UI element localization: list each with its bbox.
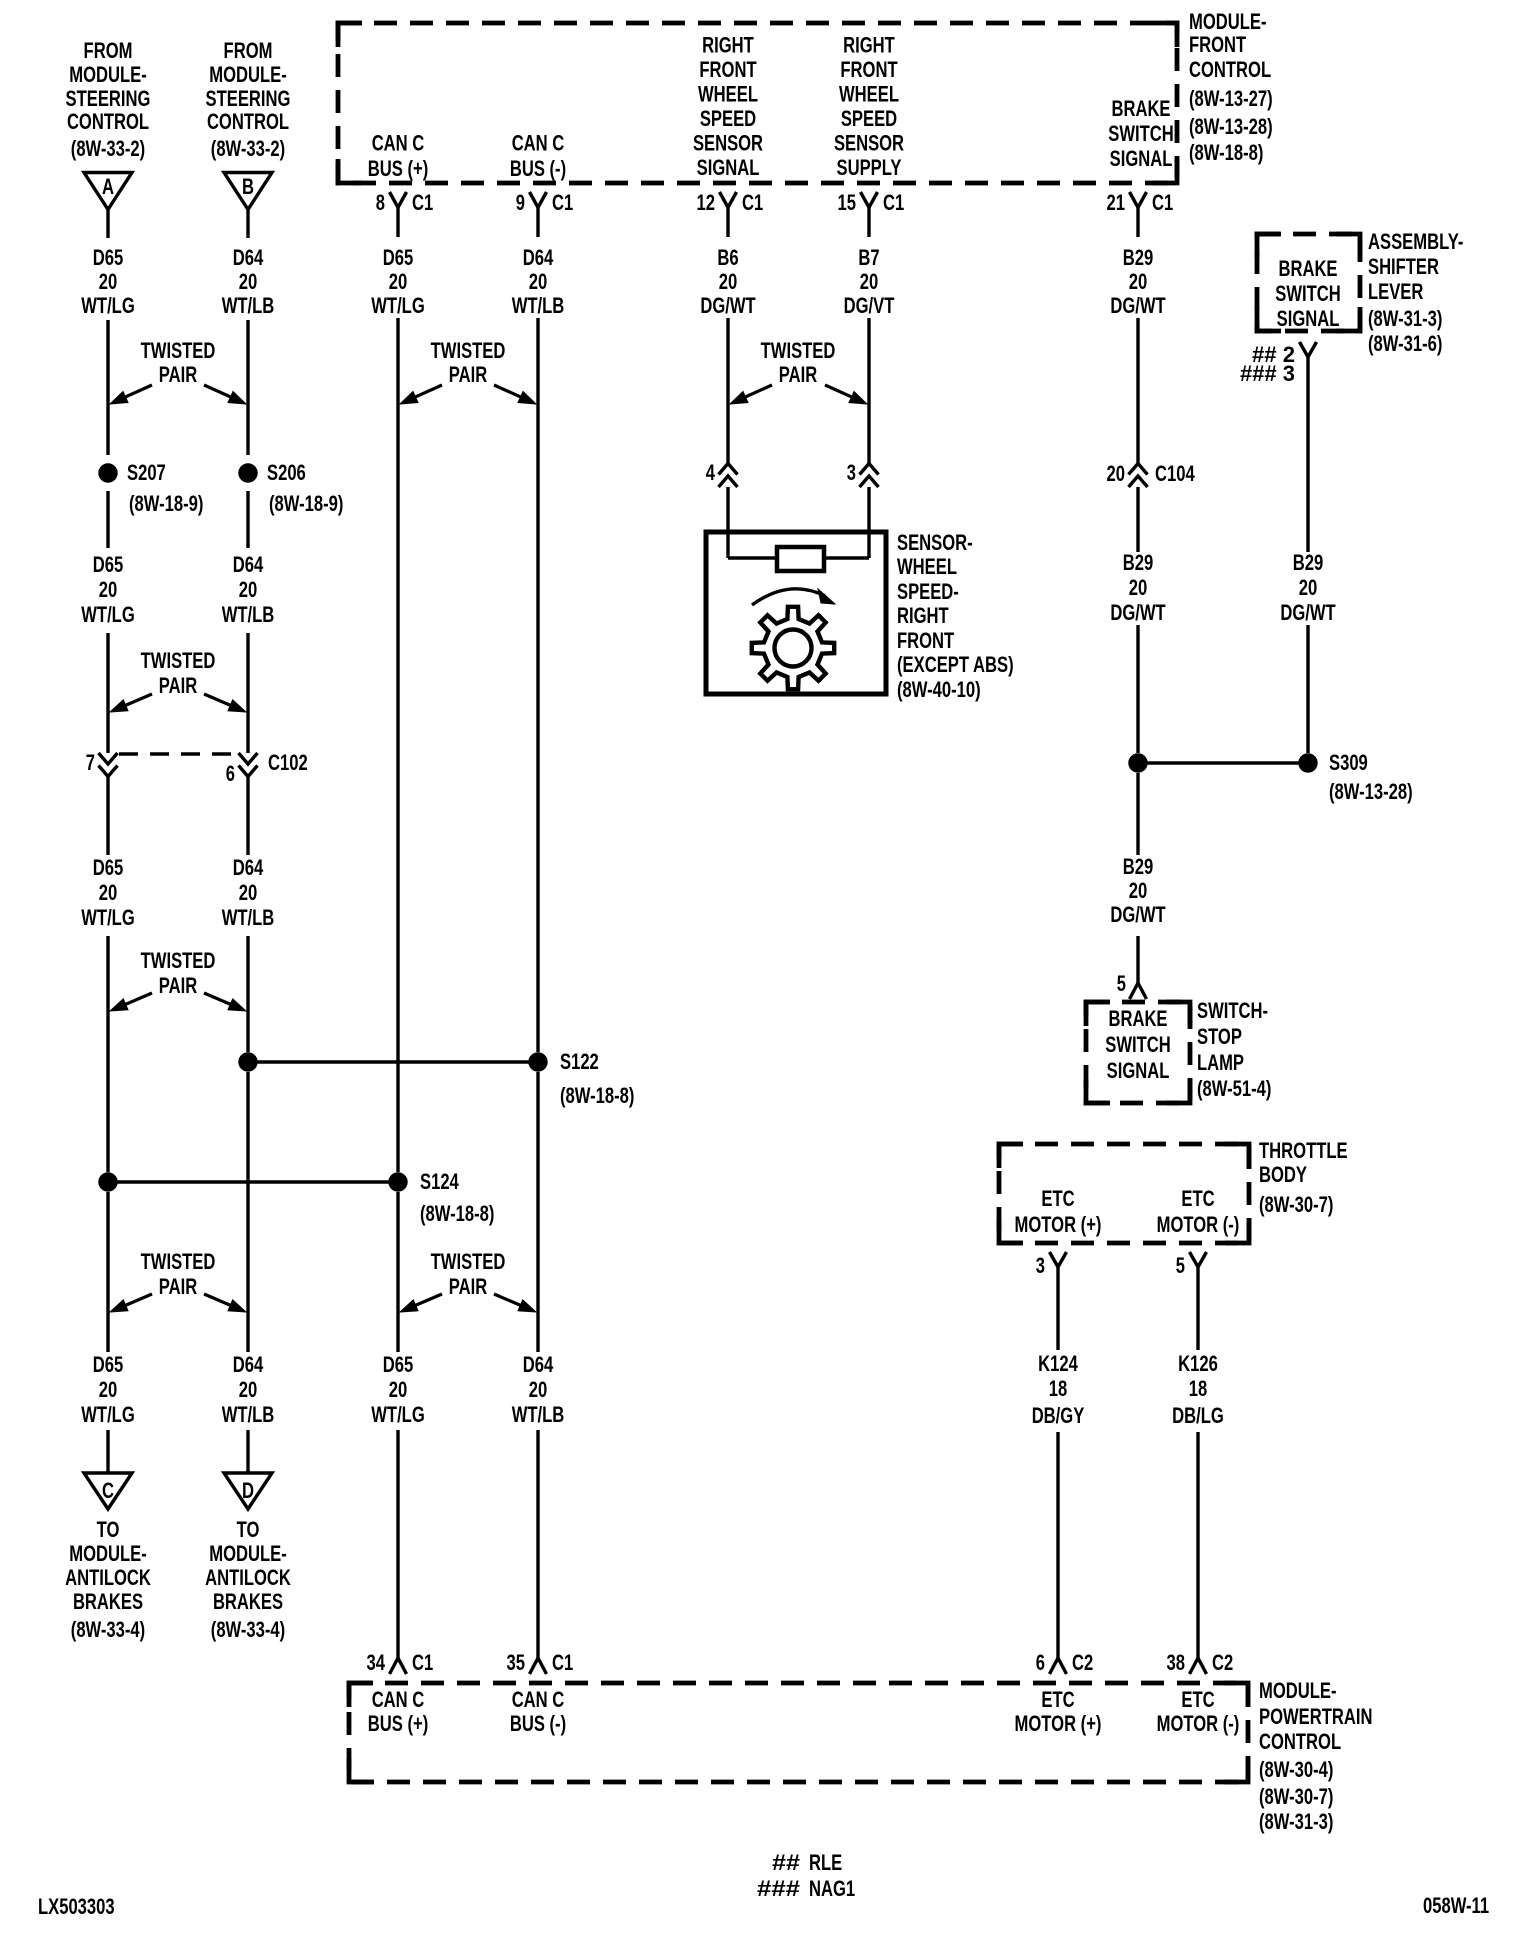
svg-text:18: 18 (1189, 1376, 1208, 1401)
svg-text:WT/LB: WT/LB (222, 905, 275, 930)
label ETC MOTOR (+) in PCM (1015, 1687, 1102, 1736)
svg-text:D65: D65 (93, 1352, 124, 1377)
svg-text:15: 15 (838, 190, 857, 215)
svg-text:ANTILOCK: ANTILOCK (65, 1565, 151, 1590)
svg-text:LAMP: LAMP (1197, 1050, 1244, 1075)
svg-text:D65: D65 (383, 245, 414, 270)
wire D64 col2 seg4 (246, 633, 249, 753)
svg-text:DG/WT: DG/WT (700, 293, 756, 318)
wire D65 col1 seg3 (106, 491, 109, 548)
rotation arc arrow (752, 589, 835, 605)
label TO MODULE-ANTILOCK BRAKES (right) (205, 1517, 291, 1642)
svg-text:CONTROL: CONTROL (1259, 1729, 1341, 1754)
label TWISTED PAIR with arrows (top, between 728 and 869) (730, 338, 867, 404)
svg-text:20: 20 (529, 1377, 548, 1402)
label ETC MOTOR (-) in PCM (1157, 1687, 1240, 1736)
svg-text:S207: S207 (127, 460, 166, 485)
tone wheel gear icon (752, 607, 834, 689)
svg-text:WT/LG: WT/LG (81, 293, 135, 318)
svg-text:MODULE-: MODULE- (1259, 1678, 1337, 1703)
wire B29 col7 seg4 (1136, 773, 1139, 855)
svg-text:CAN C: CAN C (512, 1687, 565, 1712)
svg-text:MOTOR (-): MOTOR (-) (1157, 1212, 1240, 1237)
svg-text:D65: D65 (93, 245, 124, 270)
svg-text:B7: B7 (858, 245, 879, 270)
label THROTTLE BODY refs (1259, 1138, 1348, 1217)
label TO MODULE-ANTILOCK BRAKES (left) (65, 1517, 151, 1642)
svg-text:CAN C: CAN C (372, 1687, 425, 1712)
svg-text:RIGHT: RIGHT (843, 33, 895, 58)
svg-text:5: 5 (1117, 971, 1126, 996)
svg-text:MODULE-: MODULE- (1189, 9, 1267, 34)
svg-text:C1: C1 (742, 190, 763, 215)
svg-text:WT/LG: WT/LG (81, 602, 135, 627)
wire B29 col8 seg1 (1306, 357, 1309, 552)
svg-text:DB/GY: DB/GY (1032, 1403, 1085, 1428)
wire label D64 20 WT/LB (row D) (222, 1352, 275, 1427)
svg-text:SPEED: SPEED (700, 106, 756, 131)
svg-text:SENSOR: SENSOR (693, 131, 763, 156)
svg-text:PAIR: PAIR (159, 973, 197, 998)
wire label D65 20 WT/LG (row B) (81, 552, 135, 627)
svg-text:(8W-40-10): (8W-40-10) (897, 677, 981, 702)
svg-text:B29: B29 (1123, 245, 1154, 270)
svg-text:POWERTRAIN: POWERTRAIN (1259, 1704, 1373, 1729)
wire D65 col1 seg4 (106, 633, 109, 753)
svg-text:8: 8 (376, 190, 385, 215)
wire B29 col7 seg3 (1136, 625, 1139, 753)
module box MODULE-POWERTRAIN CONTROL (349, 1683, 1248, 1782)
label TWISTED PAIR with arrows (bottom, between 108 and 248) (110, 1249, 246, 1312)
svg-text:SIGNAL: SIGNAL (1110, 146, 1173, 171)
svg-text:D65: D65 (383, 1352, 414, 1377)
svg-text:WHEEL: WHEEL (698, 82, 758, 107)
label FROM MODULE-STEERING CONTROL (left A) (66, 38, 151, 161)
connector triangle A (84, 173, 132, 210)
svg-text:SENSOR: SENSOR (834, 131, 904, 156)
legend ## RLE (772, 1850, 842, 1875)
pin 8 C1 on FCM (376, 190, 433, 237)
label BRAKE SWITCH SIGNAL in FCM (1108, 96, 1174, 171)
svg-text:C1: C1 (412, 1650, 433, 1675)
svg-text:(8W-51-4): (8W-51-4) (1197, 1076, 1271, 1101)
svg-text:C2: C2 (1212, 1650, 1233, 1675)
svg-text:BODY: BODY (1259, 1162, 1307, 1187)
svg-text:BRAKE: BRAKE (1279, 256, 1338, 281)
label FROM MODULE-STEERING CONTROL (left B) (206, 38, 291, 161)
svg-text:DB/LG: DB/LG (1172, 1403, 1224, 1428)
svg-text:RIGHT: RIGHT (702, 33, 754, 58)
svg-text:SHIFTER: SHIFTER (1368, 254, 1439, 279)
svg-text:BUS (-): BUS (-) (510, 156, 566, 181)
wire label D64 20 WT/LB (row B) (222, 552, 275, 627)
wire label B29 20 DG/WT (row B) (1280, 550, 1336, 625)
svg-text:20: 20 (1129, 878, 1148, 903)
label TWISTED PAIR with arrows (top, between 398 and 538) (400, 338, 536, 404)
svg-text:(8W-18-8): (8W-18-8) (420, 1201, 494, 1226)
svg-text:STEERING: STEERING (206, 86, 291, 111)
svg-text:SWITCH: SWITCH (1275, 281, 1341, 306)
wire B29 col7 seg5 (1136, 936, 1139, 983)
svg-text:C: C (102, 1478, 114, 1503)
svg-text:C1: C1 (552, 190, 573, 215)
svg-text:20: 20 (99, 1377, 118, 1402)
wire D64 col2 seg7 (246, 1072, 249, 1352)
svg-text:MODULE-: MODULE- (69, 62, 147, 87)
svg-text:C104: C104 (1155, 461, 1195, 486)
pin 35 C1 on PCM (507, 1645, 574, 1675)
svg-text:20: 20 (1299, 575, 1318, 600)
svg-text:B29: B29 (1123, 854, 1154, 879)
svg-text:6: 6 (1036, 1650, 1045, 1675)
svg-text:FRONT: FRONT (840, 57, 898, 82)
svg-text:4: 4 (706, 460, 716, 485)
svg-text:DG/WT: DG/WT (1280, 600, 1336, 625)
svg-text:20: 20 (99, 269, 118, 294)
module box SWITCH-STOP LAMP (1086, 1002, 1190, 1103)
svg-text:D64: D64 (233, 1352, 264, 1377)
svg-text:WHEEL: WHEEL (897, 554, 957, 579)
svg-text:(8W-18-9): (8W-18-9) (269, 491, 343, 516)
svg-text:TWISTED: TWISTED (761, 338, 836, 363)
svg-text:TWISTED: TWISTED (141, 948, 216, 973)
svg-text:### 3: ### 3 (1240, 361, 1295, 386)
svg-text:(8W-13-28): (8W-13-28) (1329, 779, 1413, 804)
svg-text:NAG1: NAG1 (809, 1876, 855, 1901)
svg-text:S124: S124 (420, 1169, 459, 1194)
svg-text:SIGNAL: SIGNAL (1277, 306, 1340, 331)
svg-text:(8W-18-8): (8W-18-8) (560, 1083, 634, 1108)
svg-text:ETC: ETC (1181, 1186, 1214, 1211)
svg-text:WT/LB: WT/LB (512, 1402, 565, 1427)
wire K124 col9 seg2 (1056, 1432, 1059, 1645)
svg-text:ETC: ETC (1181, 1687, 1214, 1712)
svg-text:20: 20 (389, 1377, 408, 1402)
wire label B29 20 DG/WT (top row) (1110, 245, 1166, 318)
wire D65 col1 seg8 (106, 1430, 109, 1473)
svg-text:TWISTED: TWISTED (431, 338, 506, 363)
wire D65 col1 seg5 (106, 777, 109, 855)
pin 21 C1 on FCM (1107, 190, 1174, 237)
svg-text:SENSOR-: SENSOR- (897, 530, 973, 555)
wire B29 col7 seg1 (1136, 318, 1139, 463)
svg-text:CONTROL: CONTROL (207, 109, 289, 134)
svg-text:D65: D65 (93, 855, 124, 880)
module box MODULE-FRONT CONTROL (338, 23, 1177, 183)
wire label D65 20 WT/LG (row C) (81, 855, 135, 930)
wire D65 col1 seg6 (106, 936, 109, 1172)
svg-text:C102: C102 (268, 750, 308, 775)
label BRAKE SWITCH SIGNAL in stop lamp box (1105, 1006, 1171, 1083)
pin 5 on throttle body (1176, 1252, 1207, 1278)
svg-text:(8W-33-2): (8W-33-2) (211, 136, 285, 161)
svg-text:PAIR: PAIR (449, 362, 487, 387)
svg-text:(8W-31-3): (8W-31-3) (1368, 306, 1442, 331)
svg-text:C1: C1 (552, 1650, 573, 1675)
svg-text:(8W-30-7): (8W-30-7) (1259, 1784, 1333, 1809)
svg-text:##: ## (772, 1850, 800, 1875)
svg-text:WHEEL: WHEEL (839, 82, 899, 107)
wire label B7 20 DG/VT (top row) (844, 245, 895, 318)
pin 5 into stop lamp switch (1117, 971, 1147, 999)
pin 3 on throttle body (1036, 1252, 1067, 1278)
svg-text:BRAKE: BRAKE (1112, 96, 1171, 121)
svg-text:A: A (102, 174, 114, 199)
svg-text:(8W-18-8): (8W-18-8) (1189, 140, 1263, 165)
svg-text:3: 3 (847, 460, 856, 485)
svg-text:LX503303: LX503303 (38, 1894, 115, 1919)
splice S206 (239, 460, 344, 516)
svg-text:C1: C1 (1152, 190, 1173, 215)
svg-text:(8W-33-4): (8W-33-4) (211, 1617, 285, 1642)
label CAN C BUS (+) in FCM (368, 131, 429, 182)
label TWISTED PAIR with arrows (bottom, between 398 and 538) (400, 1249, 536, 1312)
wire label D64 20 WT/LB (row D) (512, 1352, 565, 1427)
wire D65 col3 long (396, 318, 399, 1172)
svg-text:20: 20 (719, 269, 738, 294)
svg-text:S309: S309 (1329, 750, 1368, 775)
svg-text:20: 20 (1129, 269, 1148, 294)
splice S207 (99, 460, 204, 516)
svg-text:RLE: RLE (809, 1850, 842, 1875)
label TWISTED PAIR with arrows (third, cols 1-2) (110, 948, 246, 1011)
wire D65 col3 seg3 (396, 1430, 399, 1645)
sheet code 058W-11 (1423, 1893, 1489, 1918)
wire B6 col5 into sensor (726, 487, 729, 558)
svg-text:FRONT: FRONT (699, 57, 757, 82)
svg-text:C1: C1 (883, 190, 904, 215)
svg-text:D64: D64 (523, 1352, 554, 1377)
wire K126 col10 seg2 (1196, 1432, 1199, 1645)
svg-text:(8W-13-28): (8W-13-28) (1189, 114, 1273, 139)
wire label K124 18 DB/GY (1032, 1351, 1085, 1428)
splice S309 with link line (1129, 750, 1413, 804)
wire label D65 20 WT/LG (top row) (81, 245, 135, 318)
svg-text:34: 34 (367, 1650, 386, 1675)
svg-text:20: 20 (1107, 461, 1126, 486)
svg-text:STEERING: STEERING (66, 86, 151, 111)
wire label B29 20 DG/WT (row B) (1110, 550, 1166, 625)
svg-text:ASSEMBLY-: ASSEMBLY- (1368, 229, 1463, 254)
wire D65 col1 seg2 (106, 320, 109, 455)
svg-text:(8W-33-2): (8W-33-2) (71, 136, 145, 161)
svg-text:C1: C1 (412, 190, 433, 215)
wire label D65 20 WT/LG (row D) (371, 1352, 425, 1427)
svg-text:WT/LG: WT/LG (371, 1402, 425, 1427)
svg-text:(8W-31-6): (8W-31-6) (1368, 331, 1442, 356)
wire D64 col4 seg2 (536, 1072, 539, 1352)
svg-text:TO: TO (97, 1517, 120, 1542)
svg-text:BRAKES: BRAKES (213, 1589, 283, 1614)
wire B6 col5 (726, 318, 729, 463)
wire D64 col2 seg5 (246, 777, 249, 855)
module box THROTTLE BODY (999, 1144, 1249, 1243)
svg-text:7: 7 (86, 750, 95, 775)
wire D65 col1 seg7 (106, 1192, 109, 1352)
svg-text:20: 20 (99, 880, 118, 905)
svg-text:WT/LB: WT/LB (222, 602, 275, 627)
svg-text:DG/WT: DG/WT (1110, 600, 1166, 625)
pin 9 C1 on FCM (516, 190, 573, 237)
pin 6 C2 on PCM (1036, 1645, 1093, 1675)
label CAN C BUS (+) in PCM (368, 1687, 429, 1736)
svg-text:PAIR: PAIR (159, 673, 197, 698)
pin 2/3 on shifter lever (1240, 342, 1317, 386)
svg-text:20: 20 (99, 577, 118, 602)
svg-text:WT/LG: WT/LG (81, 1402, 135, 1427)
svg-text:20: 20 (239, 577, 258, 602)
sheet code LX503303 (38, 1894, 115, 1919)
svg-text:D64: D64 (233, 552, 264, 577)
svg-text:WT/LG: WT/LG (371, 293, 425, 318)
wire D64 col2 seg8 (246, 1430, 249, 1473)
svg-text:35: 35 (507, 1650, 526, 1675)
label TWISTED PAIR with arrows (top, between 108 and 248) (110, 338, 246, 404)
svg-text:MOTOR (-): MOTOR (-) (1157, 1711, 1240, 1736)
svg-text:DG/VT: DG/VT (844, 293, 895, 318)
svg-text:3: 3 (1036, 1253, 1045, 1278)
svg-text:FRONT: FRONT (897, 628, 955, 653)
svg-text:B6: B6 (717, 245, 738, 270)
svg-text:WT/LG: WT/LG (81, 905, 135, 930)
connector triangle B (224, 173, 272, 210)
wire B7 col6 into sensor (867, 487, 870, 558)
svg-text:THROTTLE: THROTTLE (1259, 1138, 1348, 1163)
svg-text:LEVER: LEVER (1368, 279, 1423, 304)
wire B29 col7 seg2 (1136, 487, 1139, 552)
label RIGHT FRONT WHEEL SPEED SENSOR SIGNAL (693, 33, 763, 181)
svg-text:###: ### (757, 1876, 800, 1901)
svg-text:(EXCEPT ABS): (EXCEPT ABS) (897, 652, 1014, 677)
wire label D65 20 WT/LG (row D) (81, 1352, 135, 1427)
svg-text:TWISTED: TWISTED (141, 338, 216, 363)
svg-text:WT/LB: WT/LB (222, 1402, 275, 1427)
svg-text:9: 9 (516, 190, 525, 215)
label BRAKE SWITCH SIGNAL in shifter box (1275, 256, 1341, 331)
wire label K126 18 DB/LG (1172, 1351, 1224, 1428)
svg-text:D64: D64 (233, 855, 264, 880)
label TWISTED PAIR with arrows (second, cols 1-2) (110, 648, 246, 712)
wire D64 col2 seg2 (246, 320, 249, 455)
svg-text:(8W-30-4): (8W-30-4) (1259, 1757, 1333, 1782)
splice S122 with bus line (239, 1049, 635, 1108)
svg-text:B29: B29 (1123, 550, 1154, 575)
svg-text:S206: S206 (267, 460, 306, 485)
wire K124 col9 seg1 (1056, 1267, 1059, 1350)
svg-text:WT/LB: WT/LB (512, 293, 565, 318)
pin 38 C2 on PCM (1167, 1645, 1234, 1675)
svg-text:(8W-31-3): (8W-31-3) (1259, 1809, 1333, 1834)
label ASSEMBLY-SHIFTER LEVER refs (1368, 229, 1463, 356)
svg-text:FRONT: FRONT (1189, 32, 1247, 57)
pin 12 C1 on FCM (697, 190, 764, 237)
svg-text:MODULE-: MODULE- (69, 1541, 147, 1566)
wire label D64 20 WT/LB (top row) (222, 245, 275, 318)
connector triangle C (84, 1473, 132, 1509)
component box SENSOR-WHEEL SPEED-RIGHT FRONT (706, 532, 886, 694)
wire D64 col2 seg3 (246, 491, 249, 548)
svg-text:DG/WT: DG/WT (1110, 293, 1166, 318)
svg-text:20: 20 (239, 1377, 258, 1402)
svg-text:20: 20 (860, 269, 879, 294)
connector triangle D (224, 1473, 272, 1509)
svg-text:MOTOR (+): MOTOR (+) (1015, 1711, 1102, 1736)
pin 4 chevron connector (706, 460, 738, 487)
svg-text:CONTROL: CONTROL (1189, 57, 1271, 82)
svg-text:PAIR: PAIR (779, 362, 817, 387)
svg-text:SPEED-: SPEED- (897, 579, 959, 604)
svg-text:38: 38 (1167, 1650, 1186, 1675)
svg-text:TWISTED: TWISTED (141, 1249, 216, 1274)
pin 34 C1 on PCM (367, 1645, 434, 1675)
wire K126 col10 seg1 (1196, 1267, 1199, 1350)
svg-text:C2: C2 (1072, 1650, 1093, 1675)
svg-text:WT/LB: WT/LB (222, 293, 275, 318)
svg-text:D64: D64 (233, 245, 264, 270)
svg-text:18: 18 (1049, 1376, 1068, 1401)
legend ### NAG1 (757, 1876, 855, 1901)
svg-text:ETC: ETC (1041, 1687, 1074, 1712)
svg-text:TWISTED: TWISTED (431, 1249, 506, 1274)
svg-text:SUPPLY: SUPPLY (837, 155, 902, 180)
svg-text:BUS (+): BUS (+) (368, 1711, 429, 1736)
label ETC MOTOR (-) in throttle body (1157, 1186, 1240, 1237)
svg-text:D64: D64 (523, 245, 554, 270)
label CAN C BUS (-) in FCM (510, 131, 566, 182)
pin 3 chevron connector (847, 460, 879, 487)
svg-text:20: 20 (239, 880, 258, 905)
svg-text:MODULE-: MODULE- (209, 62, 287, 87)
splice S124 with bus line (99, 1169, 495, 1226)
svg-text:ETC: ETC (1041, 1186, 1074, 1211)
svg-text:DG/WT: DG/WT (1110, 902, 1166, 927)
svg-text:20: 20 (239, 269, 258, 294)
svg-text:FROM: FROM (84, 38, 133, 63)
wire B7 col6 (867, 318, 870, 463)
svg-text:STOP: STOP (1197, 1024, 1242, 1049)
svg-text:SIGNAL: SIGNAL (1107, 1058, 1170, 1083)
svg-text:S122: S122 (560, 1049, 599, 1074)
svg-text:D: D (242, 1478, 254, 1503)
svg-text:BUS (-): BUS (-) (510, 1711, 566, 1736)
svg-text:(8W-30-7): (8W-30-7) (1259, 1192, 1333, 1217)
svg-text:058W-11: 058W-11 (1423, 1893, 1489, 1918)
label MODULE-FRONT CONTROL refs (1189, 9, 1273, 165)
label SWITCH-STOP LAMP refs (1197, 998, 1271, 1101)
svg-text:B: B (242, 174, 254, 199)
svg-text:MOTOR (+): MOTOR (+) (1015, 1212, 1102, 1237)
label CAN C BUS (-) in PCM (510, 1687, 566, 1736)
svg-text:ANTILOCK: ANTILOCK (205, 1565, 291, 1590)
wire D64 col2 seg6 (246, 936, 249, 1052)
module box ASSEMBLY-SHIFTER LEVER (1257, 234, 1360, 331)
label SENSOR-WHEEL SPEED-RIGHT FRONT (EXCEPT ABS) (897, 530, 1014, 702)
svg-text:D65: D65 (93, 552, 124, 577)
svg-text:BRAKES: BRAKES (73, 1589, 143, 1614)
wire from triangle A (106, 210, 109, 239)
svg-text:K124: K124 (1038, 1351, 1078, 1376)
svg-text:(8W-33-4): (8W-33-4) (71, 1617, 145, 1642)
svg-text:SWITCH: SWITCH (1108, 121, 1174, 146)
svg-text:TO: TO (237, 1517, 260, 1542)
svg-text:6: 6 (226, 761, 235, 786)
svg-text:(8W-13-27): (8W-13-27) (1189, 86, 1273, 111)
svg-text:SPEED: SPEED (841, 106, 897, 131)
svg-text:5: 5 (1176, 1253, 1185, 1278)
svg-text:B29: B29 (1293, 550, 1324, 575)
svg-text:K126: K126 (1178, 1351, 1218, 1376)
svg-text:12: 12 (697, 190, 716, 215)
